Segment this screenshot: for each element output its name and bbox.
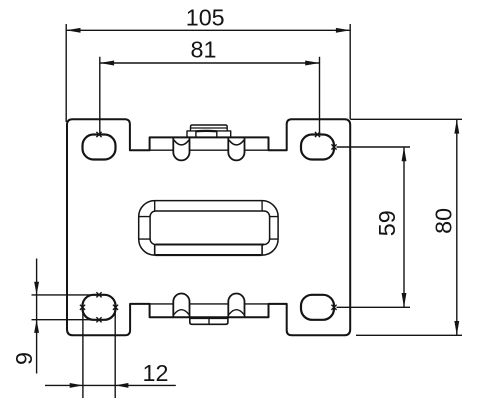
svg-text:9: 9 — [11, 352, 37, 365]
top tab cap — [191, 125, 228, 131]
hole bottom-left — [83, 295, 116, 320]
mark BR hole right — [331, 305, 336, 310]
dim 59 arrows — [402, 147, 407, 307]
hole top-right — [301, 135, 334, 160]
mark BL hole left — [80, 305, 85, 310]
svg-text:59: 59 — [374, 210, 400, 236]
mark BL hole bottom — [96, 317, 101, 322]
mark BL hole top — [96, 292, 101, 297]
dim 80 line — [456, 119, 458, 335]
mark TL hole top — [96, 132, 101, 137]
top slot right — [228, 138, 244, 161]
mark BL hole right — [113, 305, 118, 310]
dim 105 arrows — [66, 28, 350, 33]
hole bottom-right — [301, 295, 334, 320]
svg-text:80: 80 — [431, 208, 457, 234]
bottom slot right inner arc — [229, 310, 244, 315]
dim 12 extension lines — [83, 309, 115, 399]
top slot left inner arc — [174, 140, 189, 145]
emboss tangent ticks top — [155, 201, 262, 211]
svg-text:81: 81 — [191, 37, 217, 63]
hole top-left — [83, 135, 116, 160]
dim 80 extension lines — [350, 119, 462, 335]
top tab base — [187, 131, 231, 137]
dim 80 arrows — [454, 119, 459, 335]
dim 105 extension lines — [66, 24, 350, 122]
svg-text:105: 105 — [186, 5, 225, 31]
dim 81 line — [100, 62, 320, 64]
emboss tangent ticks bottom — [155, 245, 262, 256]
emboss tangent ticks left — [139, 217, 150, 240]
dim 81 extension lines — [100, 57, 320, 134]
bottom tab inner line — [190, 317, 228, 319]
bottom slot left — [173, 294, 189, 317]
dim 9 arrows — [34, 282, 39, 333]
plate outline — [67, 119, 350, 335]
mark TR hole right — [331, 144, 336, 149]
top slot left — [173, 138, 189, 161]
emboss bold bottom edges — [156, 245, 265, 256]
dim 81 arrows — [100, 61, 320, 66]
center emboss inner — [150, 211, 270, 245]
dim 12 line — [45, 384, 176, 386]
center emboss outer — [139, 201, 278, 256]
mark TR hole top — [315, 132, 320, 137]
bottom slot left inner arc — [174, 310, 189, 315]
dim 12 arrows — [70, 383, 129, 388]
top ledge edge line — [150, 149, 287, 151]
bottom tab — [190, 316, 228, 324]
top tab bridge bold edge — [196, 130, 217, 133]
top tab cap inner line — [191, 127, 228, 129]
dim 9 extension lines — [32, 295, 97, 320]
dim 9 line — [36, 259, 38, 374]
dim 105 line — [66, 29, 350, 31]
dim 59 line — [403, 147, 405, 307]
svg-text:12: 12 — [143, 360, 169, 386]
dim 59 extension lines — [337, 147, 411, 307]
bottom ledge edge line — [150, 303, 287, 305]
top slot right inner arc — [229, 140, 244, 145]
bottom tab divider — [208, 318, 210, 324]
emboss tangent ticks right — [270, 217, 279, 240]
bottom slot right — [228, 294, 244, 317]
